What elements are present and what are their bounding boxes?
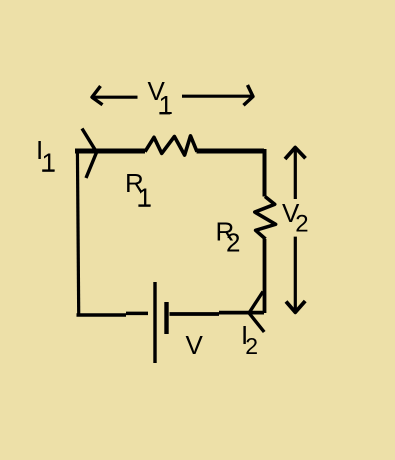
svg-text:1: 1: [138, 183, 152, 213]
svg-text:1: 1: [159, 90, 173, 120]
svg-text:2: 2: [226, 227, 240, 257]
svg-text:2: 2: [245, 333, 258, 359]
svg-text:V: V: [186, 330, 204, 360]
svg-text:2: 2: [295, 210, 308, 237]
svg-text:1: 1: [42, 148, 56, 178]
